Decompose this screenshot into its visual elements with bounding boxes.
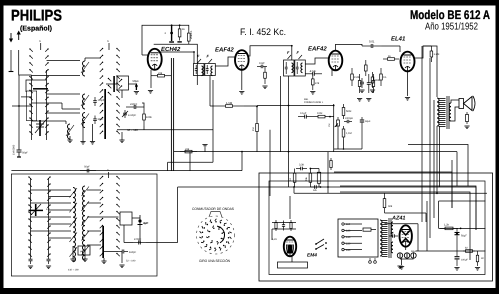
RF box contacts [118,78,122,82]
wire left vertical x124 [123,225,125,243]
node detector junction [310,168,312,170]
wave switch wafer rear view [197,212,235,255]
IFT2 primary capacitor [285,62,287,67]
resistor 45k [309,169,311,174]
band switch S1b contact column [45,48,49,135]
wire anode EAF42 to IFT2 [249,46,292,60]
wire right vertical 3 [433,100,435,218]
feed line node lower [108,172,110,178]
tube EAF42 second [329,51,343,71]
svg-text:47k: 47k [315,82,320,85]
wire EAF42-2 cathode [331,70,333,76]
svg-text:0.1μF: 0.1μF [300,112,307,115]
wire AF return y149 [334,148,362,150]
tuning gang capacitor CV1 [35,120,45,136]
resistor 20k screen [179,25,181,29]
resistor 50k [372,74,374,81]
oscillator block box [120,212,132,225]
IFT2 secondary coil [301,63,303,73]
antenna terminal [10,50,12,71]
svg-text:CONMUTADOR DE ONDAS: CONMUTADOR DE ONDAS [192,207,235,211]
svg-text:Año 1951/1952: Año 1951/1952 [425,22,478,33]
wire top EL41 [382,45,400,47]
wire main vertical x328 [327,152,329,193]
resistor 47k tap [264,67,266,73]
resistor 1.5M AVC [214,105,226,107]
electrolytic 50uF cathode [135,84,137,91]
node filter [460,228,462,230]
svg-text:52 ÷ 190: 52 ÷ 190 [126,260,136,263]
EM4 anode resistors row [275,220,277,223]
ground speaker [464,125,469,127]
coil bank L12-L16 [82,186,90,260]
svg-text:410 ÷ 190: 410 ÷ 190 [68,269,79,272]
svg-text:1M: 1M [328,124,331,127]
svg-text:4-10pF: 4-10pF [128,114,137,117]
resistor 1.2k filter [440,227,445,229]
shaft bar segment upper right [113,76,115,92]
wire y187 left segment [178,186,321,188]
trimmer capacitor 4-10pF [124,110,126,113]
svg-text:0.1: 0.1 [383,76,387,79]
capacitor 3.3K [296,168,301,170]
resistor screen [359,74,361,81]
band switch S1e contact column [116,47,120,134]
wire 4uF to bus [132,217,140,219]
switch shaft bar upper [104,89,106,139]
oscillator tuning gang CV2 [29,204,44,216]
svg-text:100k: 100k [146,116,152,119]
oscillator coil L4 low [68,124,71,139]
IF transformer 1 secondary box [205,64,216,76]
resistor 1k grid stopper [383,58,388,60]
grounds lower cluster [70,258,75,260]
feed line node 2 upper [108,43,110,50]
svg-text:1,5M: 1,5M [226,101,233,105]
node AVC junction [256,106,258,108]
IF transformer 2 secondary box [295,60,306,76]
svg-text:GIRO UNA SECCIÓN: GIRO UNA SECCIÓN [199,259,231,263]
stage box outline [154,44,198,85]
IFT1 primary capacitor [195,65,197,69]
svg-text:10pF: 10pF [259,62,265,65]
resistor 1.1M [343,126,345,129]
svg-text:1,1M: 1,1M [346,132,352,135]
svg-text:470pF: 470pF [134,238,142,241]
lower cluster enclosure box [11,174,157,276]
IFT1 secondary capacitor [206,65,208,69]
node AF [329,116,331,118]
wire AF coupling bus [321,187,477,230]
chassis enclosure inner box [269,181,485,275]
svg-text:50μF: 50μF [461,235,467,238]
svg-text:μA: μA [80,250,83,253]
wire IFT2 return vertical [280,76,282,152]
tube ECH42 [148,49,162,70]
svg-text:(Español): (Español) [20,25,52,33]
wire bus y242 [124,242,133,244]
svg-text:20k/0.1: 20k/0.1 [190,30,193,39]
svg-text:1M: 1M [252,128,255,131]
switch interruptor [315,239,327,250]
padder capacitor 30pF [94,116,96,119]
wire AVC down [256,106,258,122]
wire transformer return down [439,126,441,187]
wire IFT1 to EAF42 grid [215,57,235,66]
electrolytic 100uF right [456,251,458,256]
coil bank L7-L11 [70,188,78,262]
antenna down arrow [9,33,13,43]
wire secondary to speaker [451,100,459,103]
wires upper switch cluster [31,75,33,140]
power transformer core [388,218,390,258]
band switch S2a contact column [28,176,32,257]
tube EL41 [401,52,415,72]
svg-text:1.2M: 1.2M [434,53,440,56]
svg-text:2200pF: 2200pF [345,117,354,120]
capacitor 470pF [133,242,139,244]
wire y251 [104,251,118,253]
node AF out [320,186,322,188]
ground stub on bus [204,148,206,152]
resistor right vertical small [477,251,479,255]
IF shield box bottom edge [168,161,213,163]
band switch S2d contact column [116,175,120,256]
feed line node 1 upper [40,43,42,50]
svg-text:EM4: EM4 [307,253,317,259]
wire grid to ECH42 [117,129,144,131]
ground 110pF [119,264,124,266]
IF transformer 2 primary box [284,60,295,76]
capacitor screen bypass [368,74,370,83]
wire AF vertical x333 [333,106,335,152]
wire box bottom [121,90,123,98]
RF coupling box [117,76,129,90]
ground 47k [310,91,315,93]
border frame bottom bar [0,288,499,294]
gang shaft double line [170,58,172,171]
svg-text:220: 220 [390,232,395,235]
wire IFT2 secondary down [288,76,290,187]
svg-text:1,2k: 1,2k [444,224,450,227]
svg-text:500k: 500k [375,79,381,82]
junction dots [193,51,195,53]
svg-text:4μF: 4μF [143,221,149,225]
speaker [459,96,475,111]
resistor 500k EL41 [372,72,374,77]
output transformer T2 primary winding [437,98,446,127]
resistor small on rail [463,250,466,252]
svg-text:22k: 22k [185,148,190,151]
wire B+ filter rail [439,227,486,229]
electrolytic 50uF right [456,228,458,231]
filter capacitors 2x50uF [397,253,416,258]
capacitor 0.1uF AF coupling [298,116,305,118]
wire vertical x452 [451,160,453,208]
capacitor 0.1 lower left [30,256,32,259]
electrolytic screen bypass [171,25,173,41]
volume potentiometer [337,117,339,120]
resistor pot detector [318,169,320,173]
capacitor 110pF bottom [118,251,122,253]
svg-text:6,3V: 6,3V [272,238,277,241]
band switch S1d contact column [99,47,103,134]
capacitor 220pF osc [126,106,134,108]
IF transformer 1 primary box [194,64,205,76]
resistor 500k bleeder top [330,158,332,161]
svg-text:470: 470 [46,208,51,211]
wire grid left [142,54,148,56]
tube EM4 [284,237,296,257]
svg-text:50μF: 50μF [411,250,417,253]
output transformer secondary [449,103,451,121]
svg-text:60k: 60k [388,205,393,208]
capacitor 2200pF [344,121,347,123]
IF shield box right edge [212,80,214,162]
wire IFT2 to grid [306,58,329,64]
wire cathode rail y251 [416,250,485,252]
resistor 2.2M EL41 [430,46,432,51]
resistor 0.1M anode [188,30,190,33]
resistor 47k [312,74,314,79]
wire det to res [310,168,319,170]
band switch S2c contact column [99,175,103,256]
capacitor 10pF tap [257,66,261,68]
wire AVC riser x242 [241,152,243,171]
ground EL41 grid parts [359,89,364,91]
resistor 1M AVC [256,122,258,124]
svg-text:500k: 500k [346,110,352,113]
svg-text:0.01: 0.01 [369,40,375,44]
svg-text:30pF: 30pF [98,118,104,121]
wires lower cluster verticals [30,178,32,256]
svg-text:110pF: 110pF [98,99,105,102]
wire dropper to AZ41 [385,212,427,214]
border frame right bar [496,0,499,294]
capacitor 0.47uF coupling [305,73,313,75]
voltage selector box [338,219,378,257]
wire AVC bus segment [244,105,257,107]
oscillator coil L3 [83,113,86,128]
IFT1 primary coil [202,66,204,76]
selector frame box left [27,91,37,121]
padder capacitor 110pF [94,97,96,101]
antenna up arrow [17,31,21,41]
contacts between bars [107,77,111,81]
wires lower cluster rows [31,189,72,191]
electrolytic 4uF [139,215,141,227]
electrolytic 50uF AF [361,117,363,119]
capacitor lower left 2 [48,256,50,259]
capacitor 0.01 top [362,45,371,47]
band switch S1a contact column [29,48,33,135]
svg-text:EAF42: EAF42 [308,46,327,53]
svg-text:50μF: 50μF [365,120,371,123]
wire B+ riser corner [439,200,486,202]
resistor 22k on bus [180,151,185,153]
wire screen bus [334,172,452,208]
capacitor 52k bottom [310,186,314,188]
resistor cathode 2 [351,68,353,74]
wire AVC 1.5M [209,76,211,107]
wire AVC bus y170 [11,170,242,172]
wire anode to IFT1 [160,52,194,64]
antenna coil L2 [83,94,86,109]
voltage selector contacts [342,223,351,252]
resistor 1K [294,169,296,174]
IFT2 primary coil [292,63,294,73]
selector wires [344,224,362,250]
wire HV to rectifier [385,223,419,225]
ground ECH42 cathode [148,90,153,92]
ground AZ41 area [397,265,402,267]
fuse in selector [363,228,371,231]
EM4 bottom box [278,262,308,268]
svg-text:AZ41: AZ41 [391,216,405,222]
border frame left bar [0,0,4,294]
border frame top bar [0,0,499,6]
wire AZ41 output [405,247,407,250]
wire nested L1 [340,186,476,230]
svg-text:F. I. 452 Kc.: F. I. 452 Kc. [240,27,286,38]
wire vertical x457 [456,152,458,186]
wire x190 vertical [189,152,191,171]
antenna coil L1 [83,61,86,76]
wire B+ primary down [436,126,438,193]
svg-text:1M-5000: 1M-5000 [13,144,16,155]
wire B+ bus right [408,145,468,187]
svg-text:EAF42: EAF42 [215,47,234,54]
wire ECH42 cathode [150,70,152,76]
resistor 50k grid [365,60,367,65]
svg-text:100k: 100k [317,112,323,115]
svg-text:.47μF: .47μF [309,69,316,73]
svg-text:Modelo BE 612 A: Modelo BE 612 A [410,8,490,22]
svg-text:1K: 1K [289,178,292,181]
wire nested L2 [340,192,470,260]
svg-text:PHILIPS: PHILIPS [11,8,62,25]
resistor 60k dropper [384,193,386,198]
tube EAF42 first [235,50,249,70]
wire EL41 cathode to ground [407,71,409,96]
padder box 1 [78,246,90,255]
wire box to cap [129,83,137,85]
junction dot riser [241,151,243,153]
capacitor 50pF AVC [80,170,87,172]
svg-text:3,3K: 3,3K [299,164,304,167]
band switch S2b contact column [47,176,51,257]
ground trimmer [119,139,124,141]
resistor 0.1M plate [380,68,382,74]
wire EL41 anode to output transformer [415,46,432,58]
wire bus y129 [144,129,213,131]
wire bus y151 [174,151,457,153]
capacitor 0.02 grid [361,78,363,82]
wire verticals into psu [421,196,423,222]
mains plug [369,261,372,264]
wire EM4 top connections [272,222,296,224]
resistor 100k AF [313,116,318,118]
tube AZ41 [400,225,412,246]
IFT2 secondary capacitor [296,62,298,67]
capacitor 220 filament [389,235,393,237]
wire riser x177 [177,187,179,243]
svg-text:50pF: 50pF [22,152,28,155]
svg-text:22k: 22k [158,72,163,75]
wire screen feed top [142,25,189,55]
wire x270 vertical [269,130,271,196]
IFT2 tuning arrows [288,55,303,59]
svg-text:100μF: 100μF [461,259,468,262]
capacitor antenna series [18,140,20,150]
ground 100uF [454,267,459,269]
wire osc section [142,103,144,108]
wire EAF42-2 anode up [336,44,363,50]
wire EM4 bottom [291,257,293,262]
ground coil returns [67,139,72,141]
resistor 500k [343,104,345,108]
resistor 100k osc grid [143,108,145,114]
ground right resistor [475,267,480,269]
wire antenna feed to switch [19,50,32,75]
wire right vertical 2 [429,58,431,218]
wire heater bus long [294,192,487,194]
svg-text:50μF: 50μF [133,79,140,83]
wire EAF42 cathode to ground [241,70,243,90]
wire tap y106 [12,105,32,107]
wire right vertical 1 [421,46,423,196]
output transformer core [446,96,448,129]
switch shaft bar lower [102,226,104,258]
wire 1M to bus [256,133,258,152]
wire antenna cap feed [18,75,20,140]
resistor 22k cathode [151,75,158,77]
svg-text:50pF: 50pF [84,166,90,169]
svg-text:110pF: 110pF [129,251,137,254]
chassis enclosure outer box [259,173,493,281]
speaker field coil [466,112,468,115]
IFT1 secondary coil [211,66,213,76]
wire detector bus y104 [257,105,334,107]
power transformer T1 winding [380,220,388,257]
power transformer secondary [391,222,393,236]
svg-text:EL41: EL41 [391,36,406,43]
IFT1 tuning arrows F F [198,59,213,63]
svg-text:220pF: 220pF [130,103,138,106]
svg-text:CONMUTADOR L: CONMUTADOR L [304,101,324,104]
